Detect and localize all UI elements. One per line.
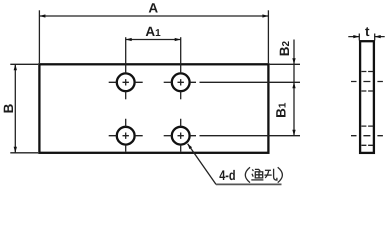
hole H3 bottom-left circle xyxy=(117,127,135,145)
dimension B arrows xyxy=(14,64,17,70)
dimension A1 arrows xyxy=(126,38,132,41)
callout close paren xyxy=(278,167,283,182)
dimension t line segments xyxy=(348,36,384,38)
svg-text:4-d: 4-d xyxy=(219,167,235,183)
hole H1 top-left circle xyxy=(117,73,135,91)
side view hole 2 centerline xyxy=(351,135,383,137)
dimension B line xyxy=(14,64,16,153)
dimension B extension lines xyxy=(10,64,38,153)
dimension A line xyxy=(39,15,268,17)
leader underline xyxy=(216,183,282,185)
dimension A arrows xyxy=(39,14,45,17)
leader arrow xyxy=(188,144,192,149)
dimension t arrows xyxy=(353,35,359,38)
hole H2 top-right circle xyxy=(172,73,190,91)
hole H4 bottom-right circle xyxy=(172,127,190,145)
callout glyph 孔 xyxy=(264,169,277,180)
plate outline (front view) xyxy=(39,64,268,153)
side view hole 1 centerline xyxy=(351,81,383,83)
dimension B2/B1 line xyxy=(293,40,295,136)
callout open paren xyxy=(245,167,250,182)
dimension t extension lines xyxy=(359,34,374,41)
dimension B1 bottom arrow xyxy=(292,130,295,136)
callout glyph 通 xyxy=(251,169,263,180)
leader line to hole H4 xyxy=(188,144,216,185)
dimension B2 arrows xyxy=(292,58,295,64)
hole H2 center mark xyxy=(164,79,184,99)
side view hole 1 hidden lines xyxy=(361,72,373,92)
side view hole 2 hidden lines xyxy=(361,126,373,145)
row 2 centerline extension (right) xyxy=(190,135,300,137)
row 1 centerline extension (right) xyxy=(190,81,300,83)
dimension A extension lines xyxy=(39,10,268,63)
hole H3 center mark xyxy=(109,119,143,152)
side view outline xyxy=(360,41,374,153)
hole H1 center mark xyxy=(109,79,143,99)
dimension B2 extension line (top, right of plate) xyxy=(270,63,300,65)
dimension A1 line xyxy=(126,39,181,41)
hole H4 center mark xyxy=(164,119,184,152)
svg-text:A: A xyxy=(148,0,158,15)
dimension A1 extension lines xyxy=(126,37,181,73)
svg-text:B: B xyxy=(1,103,16,113)
svg-text:t: t xyxy=(365,24,370,39)
